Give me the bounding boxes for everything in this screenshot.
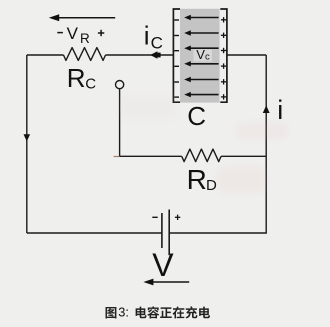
- svg-text:C: C: [187, 101, 206, 131]
- watermark artifact gray smudge: [118, 94, 178, 120]
- capacitor Vc label halo: [194, 49, 213, 61]
- current direction down arrowhead on left wire: [24, 134, 31, 141]
- capacitor C dielectric gray fill: [180, 9, 220, 103]
- capacitor field arrow 4: [184, 61, 218, 66]
- svg-text:i: i: [144, 21, 150, 51]
- current i up arrowhead on right wire: [263, 105, 270, 113]
- capacitor plus sign 2: [221, 33, 226, 38]
- node terminal circle: [116, 81, 124, 89]
- capacitor minus sign 3: [174, 50, 179, 52]
- capacitor right plate: [220, 9, 227, 102]
- svg-text:3:: 3:: [118, 304, 129, 319]
- capacitor voltage label Vc: [196, 47, 210, 63]
- capacitor minus sign 5: [174, 81, 179, 83]
- wire resistor RD to right wire: [221, 155, 266, 157]
- wire node circle down: [119, 89, 121, 157]
- resistor RD zigzag: [182, 149, 221, 162]
- capacitor plus sign 5: [221, 79, 226, 84]
- svg-text:V: V: [196, 47, 205, 62]
- svg-text:V: V: [152, 247, 174, 283]
- svg-text:D: D: [206, 177, 217, 194]
- voltage VR plus sign: [98, 30, 104, 36]
- capacitor minus sign 4: [174, 65, 179, 67]
- resistor RC label: [67, 63, 97, 93]
- svg-text:R: R: [80, 31, 90, 46]
- wire node to resistor RD: [120, 155, 182, 157]
- svg-text:C: C: [151, 34, 163, 53]
- wire red stub artifact: [114, 156, 120, 158]
- svg-text:V: V: [67, 24, 79, 43]
- capacitor left plate: [173, 9, 180, 102]
- svg-text:R: R: [67, 63, 86, 93]
- capacitor field arrow 1: [184, 15, 218, 20]
- wire capacitor right plate to right corner: [227, 54, 266, 56]
- capacitor minus sign 2: [174, 35, 179, 37]
- capacitor minus sign 1: [174, 19, 179, 21]
- battery minus sign: [152, 216, 157, 218]
- wire bottom-left to battery: [27, 232, 162, 234]
- capacitor field arrow 3: [184, 46, 218, 51]
- svg-text:C: C: [85, 76, 96, 93]
- capacitor plus sign 3: [221, 48, 226, 53]
- watermark artifact pink blob 2: [218, 166, 266, 193]
- wire battery to bottom-right corner and up right side: [169, 55, 266, 233]
- current iC arrowhead on top wire: [150, 51, 160, 59]
- wire left side vertical: [26, 55, 28, 233]
- battery negative plate (short): [161, 213, 163, 248]
- wire top-left segment: [27, 54, 64, 56]
- resistor RD label: [187, 164, 217, 195]
- capacitor plus sign 4: [221, 63, 226, 68]
- svg-text:c: c: [205, 51, 210, 62]
- wire resistor RC to capacitor left plate: [106, 54, 174, 56]
- caption figure 3 CJK text: [106, 304, 211, 319]
- svg-text:R: R: [187, 164, 207, 195]
- current iC label: [144, 21, 163, 53]
- battery voltage V arrow (pointing left): [143, 279, 189, 286]
- resistor RC zigzag: [64, 48, 106, 61]
- battery plus sign: [175, 215, 180, 220]
- capacitor plus sign 6: [221, 94, 226, 99]
- capacitor field arrow 2: [184, 30, 218, 35]
- capacitor field arrow 6: [184, 92, 218, 97]
- svg-text:i: i: [277, 95, 283, 125]
- capacitor minus sign 6: [174, 96, 179, 98]
- voltage VR minus sign: [57, 32, 63, 34]
- watermark artifact pink blob 1: [236, 123, 288, 139]
- voltage VR arrow (pointing left): [49, 14, 115, 21]
- capacitor field arrow 5: [184, 77, 218, 82]
- voltage VR label: [67, 24, 90, 46]
- capacitor plus sign 1: [221, 17, 226, 22]
- battery positive plate (long): [168, 210, 170, 256]
